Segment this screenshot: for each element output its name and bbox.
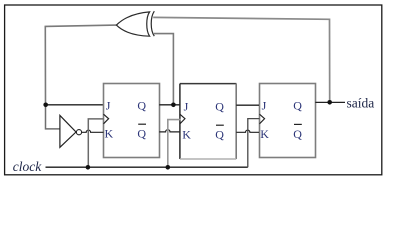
- wire: XOR output feedback (top-left): [45, 25, 116, 105]
- inverter bubble: [76, 130, 81, 135]
- flip-flop FF1 box: [104, 84, 160, 158]
- wire: Q3 to saida: [315, 101, 345, 103]
- xor gate second input arc: [151, 11, 154, 36]
- wire: Q2 to J3: [236, 104, 259, 106]
- wire: XOR bottom input from Q1 node: [154, 34, 174, 105]
- node: junction J1 tap: [43, 103, 48, 108]
- wire: inverter output to K1 with hop over clock line: [82, 130, 104, 132]
- wire: Q1 to J2: [159, 104, 180, 106]
- node: Q1 tap to XOR: [171, 103, 176, 108]
- svg-text:J: J: [262, 98, 267, 112]
- wire: clock branch FF2: [168, 120, 181, 168]
- flip-flop FF2 box: [180, 84, 237, 159]
- svg-text:Q: Q: [293, 98, 302, 112]
- svg-text:clock: clock: [13, 159, 42, 174]
- svg-text:K: K: [105, 126, 114, 140]
- inverter (clock to K1): [60, 115, 76, 147]
- clock pin triangle FF1: [104, 114, 109, 124]
- wire: J input FF1: [46, 104, 104, 106]
- clock pin triangle FF3: [260, 114, 265, 124]
- wire: XOR top input from saida node: [153, 17, 330, 102]
- svg-text:Q: Q: [137, 126, 146, 140]
- xor gate (left-facing): [116, 12, 149, 36]
- flip-flop FF3 box: [260, 84, 316, 158]
- wire: clock branch FF1: [88, 119, 103, 167]
- svg-text:K: K: [182, 128, 191, 142]
- svg-text:Q: Q: [137, 99, 146, 113]
- node: clock junction FF2: [166, 165, 171, 170]
- svg-text:Q: Q: [293, 127, 302, 141]
- node: clock junction FF1: [86, 165, 91, 170]
- svg-text:Q: Q: [215, 128, 224, 142]
- svg-text:J: J: [184, 99, 189, 113]
- wire: Qbar1 to K2 with hop: [159, 130, 180, 132]
- wire: Qbar2 to K3 with hop: [236, 130, 259, 132]
- svg-text:J: J: [106, 99, 111, 113]
- clock pin triangle FF2: [180, 114, 185, 124]
- svg-text:saída: saída: [347, 95, 375, 110]
- wire: feedback down to inverter input: [46, 105, 60, 129]
- svg-text:Q: Q: [215, 99, 224, 113]
- svg-text:K: K: [260, 127, 269, 141]
- wire: clock rail: [46, 166, 248, 168]
- node: saida tap: [327, 100, 332, 105]
- wire: clock branch FF3: [248, 119, 260, 168]
